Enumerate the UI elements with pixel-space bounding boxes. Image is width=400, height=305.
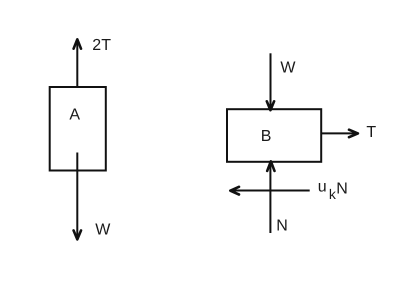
force arrow T (right from B) — [321, 132, 357, 134]
arrowhead N — [267, 161, 274, 171]
arrowhead T — [349, 130, 358, 138]
svg-text:2T: 2T — [92, 37, 111, 54]
svg-text:T: T — [366, 124, 376, 141]
svg-text:N: N — [336, 180, 348, 197]
arrowhead 2T — [74, 39, 81, 48]
svg-text:N: N — [276, 218, 288, 235]
block A — [50, 87, 106, 171]
arrowhead ukN — [230, 187, 239, 195]
svg-text:A: A — [69, 106, 80, 123]
force arrow W (down from inside A) — [76, 153, 78, 239]
svg-text:u: u — [318, 179, 327, 196]
svg-text:B: B — [261, 128, 272, 145]
arrowhead W left — [74, 231, 81, 240]
block B — [227, 109, 321, 162]
force arrow W (down onto top of B) — [270, 53, 272, 110]
friction arrow ukN (left, below B) — [231, 190, 310, 192]
force arrow 2T (up from top of A) — [76, 40, 78, 88]
arrowhead W right — [267, 101, 274, 110]
svg-text:W: W — [95, 222, 111, 239]
svg-text:W: W — [280, 59, 296, 76]
force arrow N (up onto bottom of B) — [269, 162, 271, 234]
